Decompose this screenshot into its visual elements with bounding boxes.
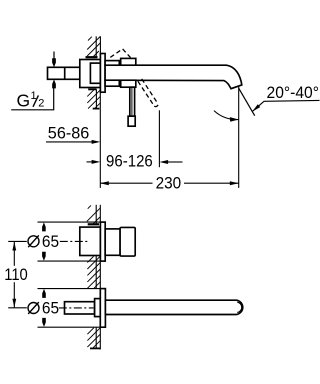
handle hub top rect left	[105, 61, 119, 66]
svg-text:110: 110	[4, 266, 28, 284]
wall piece 3 foot	[90, 347, 100, 349]
tie line 110 top	[8, 240, 27, 242]
dimension 110	[13, 242, 15, 266]
spout bar (front)	[105, 300, 242, 314]
wall piece 1 foot	[88, 223, 99, 225]
label diameter 65 bottom	[28, 300, 59, 318]
water stream direction line	[239, 88, 255, 116]
G1/2 leader	[11, 85, 54, 110]
angle arc	[214, 111, 239, 120]
G1/2 top arrow	[53, 52, 55, 59]
20-40 leader line	[252, 100, 319, 111]
spout stem (bottom view)	[65, 302, 95, 314]
wall piece 1 hatching	[87, 205, 100, 223]
wall upper piece lines	[96, 36, 100, 57]
center line top body	[60, 240, 89, 242]
wall upper hatching	[87, 37, 100, 58]
dashed lever swung position	[138, 79, 158, 107]
dashed lever raised position	[110, 49, 130, 58]
pipe divider	[64, 67, 66, 79]
svg-text:65: 65	[42, 300, 59, 318]
label diameter 65 top	[28, 233, 59, 251]
top body box	[80, 227, 101, 255]
svg-text:G: G	[17, 90, 31, 110]
wall piece 2 hatching	[87, 256, 100, 288]
bottom body escutcheon	[100, 289, 105, 328]
wall piece 2 lines	[96, 256, 100, 289]
dimension 96-126	[87, 161, 93, 163]
wall piece 3 lines	[96, 327, 100, 349]
svg-text:230: 230	[156, 174, 182, 192]
dim 65 bottom extension lines	[38, 288, 101, 290]
escutcheon (top view)	[100, 54, 105, 93]
20-40 leader arrowhead	[252, 104, 260, 111]
wall piece 1 lines	[96, 205, 100, 225]
dim 65 top extension lines	[38, 221, 101, 223]
lever inner line	[131, 87, 133, 116]
wall lower foot ticks	[88, 88, 96, 90]
dim 65 bottom arrows	[42, 289, 46, 298]
wall lower piece lines	[96, 89, 100, 108]
handle stem	[105, 229, 120, 255]
wall lower hatching	[87, 90, 100, 109]
lever tip	[128, 116, 135, 126]
handle hub bottom rect left	[105, 80, 119, 86]
svg-text:56-86: 56-86	[48, 124, 90, 142]
handle hub top rect right	[121, 58, 136, 65]
handle hub bottom rect right	[121, 80, 136, 87]
svg-text:2: 2	[38, 98, 44, 110]
concealed body inner rect	[90, 63, 100, 83]
concealed body outer box	[80, 60, 101, 88]
dimension 230	[100, 181, 109, 185]
center line bottom body	[59, 307, 94, 309]
G1/2 connection pipe	[48, 67, 80, 79]
wall upper foot tick	[86, 56, 98, 58]
lever stick	[130, 87, 135, 116]
dim 65 top arrows	[42, 222, 46, 231]
angle arc arrowhead	[230, 117, 239, 122]
top body escutcheon	[100, 222, 105, 261]
extension line wall face	[99, 109, 101, 188]
G1/2 bottom arrow	[52, 79, 56, 88]
wall piece 3 hatching	[87, 328, 100, 348]
label G 1/2	[17, 90, 45, 110]
svg-text:65: 65	[42, 233, 59, 251]
spout (side view)	[105, 65, 242, 89]
tie line 110 bottom	[8, 307, 27, 309]
handle knob	[120, 227, 135, 256]
spout bar end inner arc	[237, 302, 242, 312]
svg-text:96-126: 96-126	[106, 152, 153, 170]
spout flange	[95, 299, 101, 317]
extension line at spout tip	[238, 86, 240, 187]
fraction slash	[33, 95, 38, 106]
svg-text:20°-40°: 20°-40°	[267, 84, 320, 102]
extension line lever tip	[158, 110, 160, 167]
